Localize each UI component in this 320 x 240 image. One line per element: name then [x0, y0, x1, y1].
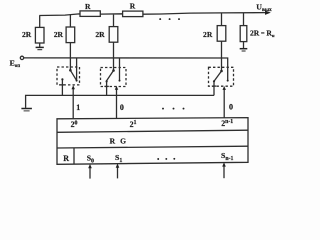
node SW2 control arrowhead: [115, 86, 118, 90]
wire node2 drop: [69, 15, 71, 27]
wire load resistor to ground: [243, 42, 245, 49]
register row divider 2: [57, 146, 248, 148]
wire node3 drop: [113, 15, 115, 27]
resistor R (second, horizontal): [123, 11, 143, 17]
switch SW2 lever (to ground contact, bit=0): [106, 71, 113, 82]
wire top rail: [39, 13, 266, 16]
input arrow S0: [88, 164, 92, 179]
svg-text:1: 1: [76, 103, 80, 112]
resistor 2R = Rн (load): [240, 26, 247, 42]
switch SWn dashed box: [209, 67, 234, 86]
wire SWn control line from register: [223, 88, 225, 118]
wire 2R bit2 down to switch pivot: [113, 42, 115, 70]
ground (under load resistor): [240, 49, 248, 51]
input arrow S1: [116, 163, 120, 178]
svg-text:0: 0: [229, 102, 233, 111]
register row divider 1: [57, 130, 248, 132]
resistor 2R bit n-1: [217, 26, 226, 42]
wire node1 drop: [39, 16, 41, 28]
wire SW2 ground contact to ground bus: [106, 81, 108, 95]
ground (left of ground bus): [21, 109, 32, 111]
rail ellipsis dots: [159, 18, 180, 20]
svg-text:R: R: [63, 154, 69, 163]
wire SW1 Eоп tap: [76, 58, 78, 80]
register R-cell divider: [73, 148, 75, 164]
node SWn Eоп contact: [227, 80, 229, 82]
wire 2R terminator to ground: [39, 43, 41, 47]
resistor 2R bit1: [66, 27, 75, 43]
node SW1 control arrowhead: [72, 85, 75, 89]
svg-text:R G: R G: [110, 137, 128, 146]
node SWn control arrowhead: [223, 86, 226, 90]
wire node4 drop: [221, 13, 223, 26]
svg-text:2R: 2R: [95, 30, 105, 39]
node SW1 ground contact dot: [61, 78, 63, 80]
resistor 2R terminator: [35, 27, 44, 43]
switch SWn lever (to ground contact, bit=0): [214, 71, 221, 81]
wire SW1 ground contact to ground bus: [61, 79, 63, 95]
register RG box outline: [57, 118, 248, 165]
svg-text:R: R: [130, 2, 136, 11]
svg-text:2R: 2R: [22, 30, 32, 39]
wire ground bus: [26, 95, 214, 108]
wire SW1 control line from register: [72, 88, 74, 119]
wire SW2 box-bottom dash over ground wire: [104, 85, 108, 87]
wire SWn box-bottom dash over ground wire: [212, 85, 216, 87]
ground (under terminator 2R): [36, 47, 44, 49]
switch SWn pivot dot: [220, 70, 223, 73]
svg-text:2R: 2R: [54, 30, 64, 39]
wire SW1 box-bottom dash over ground wire: [60, 84, 64, 86]
svg-text:R: R: [85, 2, 91, 11]
switch SW2 dashed box: [101, 68, 127, 87]
wire Eоп bus: [24, 58, 228, 81]
wire SWn ground contact to ground bus: [213, 81, 215, 95]
node SW2 ground contact dot: [106, 80, 108, 82]
wire 2R bit1 down to switch pivot: [69, 43, 71, 71]
svg-text:2R = Rн: 2R = Rн: [250, 28, 275, 38]
wire SW2 Eоп tap: [119, 58, 121, 80]
node Eоп terminal circle: [20, 56, 23, 59]
switch SW2 pivot dot: [112, 69, 115, 72]
node SW2 Eоп contact: [119, 80, 121, 82]
switch SW1 pivot dot: [69, 69, 72, 72]
wire 2R bit n-1 down to switch pivot: [221, 41, 223, 71]
svg-text:0: 0: [120, 103, 124, 112]
switch SW1 lever (to Eоп contact, bit=1): [70, 70, 76, 80]
register row3 ellipsis dots: [157, 158, 175, 160]
input arrow Sn-1: [222, 162, 226, 178]
wire SW2 control line from register: [116, 88, 118, 118]
switch SW1 dashed box: [57, 67, 80, 85]
node SW1 Eоп contact: [76, 80, 78, 82]
resistor R (first, horizontal): [80, 11, 100, 17]
resistor 2R bit2: [109, 27, 118, 43]
wire node5 drop: [243, 13, 245, 26]
svg-text:2R: 2R: [203, 30, 213, 39]
node SWn ground contact dot: [213, 80, 215, 82]
node output arrow of Uвых: [265, 11, 271, 15]
digit-row ellipsis dots: [162, 108, 184, 110]
